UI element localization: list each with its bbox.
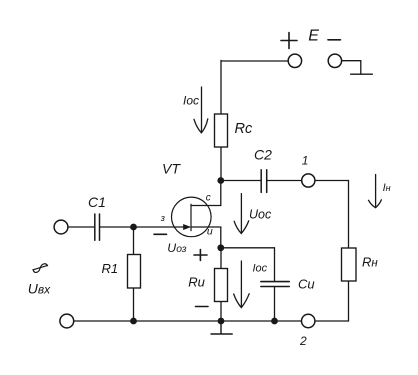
terminal output 2 [302,314,315,327]
svg-text:с: с [206,192,211,203]
wire Rn bottom to bottom rail [315,281,349,321]
ground main [211,321,232,334]
capacitor C2 [261,170,267,193]
capacitor C1 [95,214,100,240]
wire E minus to ground [342,61,361,74]
junction node gate [130,224,137,231]
wire drain to node [191,181,221,206]
minus sign gate [154,233,167,235]
wire drain node to C2 [221,180,261,182]
svg-text:Uвх: Uвх [28,280,51,296]
svg-text:C1: C1 [88,194,106,210]
wire source to node [191,227,221,248]
svg-text:и: и [207,226,213,238]
svg-text:2: 2 [299,334,307,348]
current arrow Ioc bottom [234,261,250,308]
junction node R1 bottom [130,318,137,325]
wire C1 to gate [100,226,185,228]
svg-text:Uоз: Uоз [167,241,187,255]
plus sign E [281,33,297,49]
svg-text:VT: VT [162,161,181,177]
svg-text:Ioc: Ioc [183,94,199,108]
wire source node to Cu branch [221,248,275,281]
terminal E minus [328,54,341,67]
junction node Ru bottom [218,318,225,325]
resistor R1 [128,255,141,289]
wire right vertical to Rn top [348,181,350,249]
resistor Rc [215,114,228,147]
terminal output 1 [302,174,315,187]
current arrow Ioc top [194,87,208,133]
resistor Rn [342,248,357,281]
transistor VT (JFET) [172,197,212,237]
svg-text:Uoc: Uoc [249,207,272,221]
svg-text:R1: R1 [102,261,119,276]
terminal E plus [288,54,301,67]
svg-text:Ru: Ru [188,274,205,289]
svg-text:1: 1 [302,154,309,168]
svg-text:з: з [160,213,165,223]
wire C2 to terminal 1 [268,180,303,182]
plus sign source [194,250,207,261]
terminal input bottom [60,314,74,328]
wire bottom rail [74,320,302,322]
wire terminal 1 to right branch [315,180,349,182]
svg-text:Iн: Iн [383,182,391,194]
svg-text:Rc: Rc [235,121,253,137]
svg-text:Ioc: Ioc [253,263,268,275]
svg-text:Rн: Rн [362,254,378,269]
capacitor Cu [261,282,289,287]
wire main vertical to Rc [220,60,222,114]
wire E plus horizontal [221,60,288,62]
resistor Ru [215,269,228,302]
minus sign E [328,39,340,41]
wire R1 top [133,227,135,255]
wire input top to C1 [68,226,94,228]
wire Rc bottom to drain node [220,147,222,181]
current arrow In [369,175,382,208]
svg-text:Cu: Cu [298,276,315,291]
wire Ru bottom [220,302,222,322]
wire Cu bottom [274,287,276,322]
terminal input top [54,220,68,234]
sine symbol [33,264,48,273]
svg-text:E: E [308,27,319,44]
ground E minus [351,73,373,75]
junction node source [217,244,224,251]
svg-text:C2: C2 [254,146,272,162]
wire Ru top [220,248,222,269]
junction node drain [217,177,224,184]
minus sign Ru [196,306,209,308]
voltage arrow Uoc [234,194,249,234]
junction node Cu bottom [271,318,278,325]
wire R1 bottom [133,288,135,321]
